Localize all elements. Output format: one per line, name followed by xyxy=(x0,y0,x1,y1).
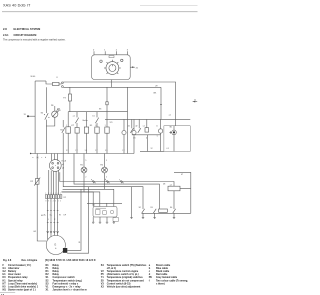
svg-text:121: 121 xyxy=(110,122,113,124)
contact S0 xyxy=(44,113,50,119)
wire bus D xyxy=(63,153,134,155)
wire fuse to terminals xyxy=(59,83,61,85)
wire lamp H2 tail xyxy=(63,173,105,189)
starter motor M1 xyxy=(63,248,67,253)
switch S1 aux contact left xyxy=(100,60,102,62)
wire bus E xyxy=(105,118,190,120)
wire diode down xyxy=(46,117,55,126)
wire left branch to G1 xyxy=(36,154,38,179)
terminal 30 xyxy=(62,82,64,84)
svg-text:41: 41 xyxy=(194,99,196,101)
wire X2 to G1 lead 1 xyxy=(47,198,49,239)
wire harness line 1b xyxy=(173,191,175,209)
resistor R3 xyxy=(34,178,40,186)
center cluster labels xyxy=(73,109,101,123)
svg-text:2 7: 2 7 xyxy=(122,150,124,152)
relay K0 coil xyxy=(66,127,71,133)
wire module stub d xyxy=(106,203,108,206)
fuel solenoid Y1 body xyxy=(169,119,176,134)
wire K3 to bus D xyxy=(106,133,108,153)
relay KT coil xyxy=(75,128,79,134)
module N1 ground stub 4 xyxy=(113,221,115,223)
wire bus A1 to right riser 2 xyxy=(63,82,175,119)
svg-text:G1: G1 xyxy=(33,231,37,233)
svg-text:Vehicle (use also) adjustment: Vehicle (use also) adjustment xyxy=(107,285,141,288)
module N1 ground stub 1 xyxy=(92,217,94,223)
wire X2 to G1 lead 2 xyxy=(50,198,52,236)
wire X1 to X2 pin4 xyxy=(55,171,57,194)
wire X1 to X2 pin1 xyxy=(48,170,50,195)
alternator lead labels xyxy=(44,214,67,221)
wire bus B xyxy=(68,111,127,113)
svg-text:m: m xyxy=(156,125,158,127)
svg-text:5: 5 xyxy=(106,160,107,162)
svg-text:XAS 40 DdG IT: XAS 40 DdG IT xyxy=(3,4,31,8)
svg-text:d2: d2 xyxy=(135,125,137,127)
wire ground return lower xyxy=(67,187,88,254)
svg-text:Junction level s + shunt the m: Junction level s + shunt the m xyxy=(53,288,87,291)
svg-text:X2: X2 xyxy=(63,197,66,199)
node bus H end xyxy=(30,153,31,154)
svg-text:S4: S4 xyxy=(101,264,105,267)
wire relay drop c xyxy=(86,112,88,127)
switch position ticks xyxy=(94,51,128,55)
lamp H2 xyxy=(102,154,108,173)
wire labels a b c d xyxy=(32,157,46,159)
svg-text:3: 3 xyxy=(127,49,129,51)
relay K3 coil xyxy=(105,127,109,133)
svg-text:V1: V1 xyxy=(58,110,60,112)
wire right rail top xyxy=(174,172,191,188)
ground stub right 3 xyxy=(173,213,175,218)
switch S4 contact xyxy=(173,209,176,214)
wire X2 to G1 lead 3 xyxy=(53,198,55,235)
wire B2 to right rail xyxy=(180,188,191,213)
svg-text:41: 41 xyxy=(136,67,139,69)
terminal 31 xyxy=(27,115,29,117)
svg-text:X1: X1 xyxy=(46,288,50,291)
svg-text:The compressor is executed wit: The compressor is executed with a negati… xyxy=(3,39,66,42)
svg-text:4: 4 xyxy=(146,138,147,140)
wire module bus xyxy=(87,202,122,204)
plug contact pair a xyxy=(92,180,95,183)
connector X2 strip xyxy=(45,195,61,199)
wire drop to bus G a xyxy=(147,135,149,152)
svg-text:c: c xyxy=(41,157,42,159)
svg-text:b: b xyxy=(105,179,106,181)
svg-text:2: 2 xyxy=(116,49,118,51)
wire H1 tail to module xyxy=(84,192,100,207)
svg-text:ELECTRICAL SYSTEM: ELECTRICAL SYSTEM xyxy=(14,28,41,31)
wire relay drop a xyxy=(67,112,69,127)
svg-text:1234567: 1234567 xyxy=(46,193,63,195)
svg-text:W: W xyxy=(59,214,61,216)
lead dashes xyxy=(47,210,59,212)
lead dashes row 2 xyxy=(47,222,59,224)
wire bus A2 xyxy=(63,86,161,88)
svg-text:S2: S2 xyxy=(139,207,141,209)
relay K2 coil xyxy=(95,127,99,133)
svg-text:M1: M1 xyxy=(170,126,173,128)
sensor box B2 xyxy=(168,186,180,191)
alternator G1 xyxy=(46,235,65,254)
lamp H1 xyxy=(81,154,87,173)
svg-text:2.8: 2.8 xyxy=(3,27,7,31)
resistor R1 xyxy=(159,209,168,212)
wire X1 to X2 pin3 xyxy=(53,171,55,194)
wire bus H xyxy=(31,153,64,155)
terminal 41 arrow right margin xyxy=(193,101,198,103)
svg-text:d: d xyxy=(45,157,46,159)
header top rule right xyxy=(140,4,198,6)
wire H2 tail to module xyxy=(105,189,114,206)
wire drop d2 + contact xyxy=(138,119,141,132)
wire harness line 1 xyxy=(60,172,174,186)
wire fuse F2 to bus B xyxy=(69,101,71,112)
svg-text:D+: D+ xyxy=(50,214,52,216)
svg-text:K1: K1 xyxy=(90,125,93,127)
wire switch terminal 41 xyxy=(130,66,135,68)
svg-text:Barlas: Barlas xyxy=(83,120,88,122)
wire KT to bus D xyxy=(76,133,78,153)
lead arrows xyxy=(47,231,59,233)
wire fuse F2 drop xyxy=(69,87,71,94)
switch S3 contact xyxy=(153,209,156,214)
svg-text:a1: a1 xyxy=(73,116,75,118)
svg-text:CIRCUIT DIAGRAM: CIRCUIT DIAGRAM xyxy=(14,34,37,37)
svg-text:3 5: 3 5 xyxy=(105,150,107,152)
ground stub right 1 xyxy=(142,213,144,218)
wire X2 to G1 lead 4 xyxy=(57,198,59,235)
svg-text:2 7: 2 7 xyxy=(75,150,77,152)
relay pin number labels xyxy=(66,125,125,152)
svg-text:H1: H1 xyxy=(80,165,83,167)
ground stub right 2 xyxy=(153,213,155,218)
svg-text:30 00: 30 00 xyxy=(30,76,35,78)
plug labels xyxy=(91,179,120,181)
diode V1 xyxy=(52,109,60,117)
fuse F2 xyxy=(68,94,71,101)
wire diode feed xyxy=(54,106,56,111)
svg-text:(b): (b) xyxy=(36,157,39,159)
header rule xyxy=(2,11,198,13)
svg-text:2 7: 2 7 xyxy=(95,150,97,152)
switch S2 contact xyxy=(142,209,145,214)
plug contact pair c xyxy=(120,180,123,183)
svg-text:5: 5 xyxy=(85,160,86,162)
right cluster labels xyxy=(110,122,173,150)
svg-text:K1 A: K1 A xyxy=(62,159,67,162)
svg-text:B+: B+ xyxy=(44,214,46,216)
switch position labels xyxy=(93,49,129,51)
svg-text:f: f xyxy=(149,279,150,282)
switch S1 keyway mark xyxy=(109,56,114,58)
svg-text:28: 28 xyxy=(163,184,166,186)
svg-text:1: 1 xyxy=(48,219,49,221)
wire drop to bus G b xyxy=(160,133,162,151)
svg-text:S3: S3 xyxy=(150,207,152,209)
plug contact pair b xyxy=(106,180,109,183)
svg-text:S4: S4 xyxy=(170,207,172,209)
wire harness line 2 xyxy=(74,154,159,210)
svg-text:F: F xyxy=(57,77,59,79)
svg-text:[N] 9846 5745 01 1/96 9846: [N] 9846 5745 01 1/96 9846 5843 18 E/3 D xyxy=(45,259,96,262)
svg-text:u1: u1 xyxy=(143,125,145,127)
wire harness line 3 xyxy=(63,154,143,210)
svg-text:3 5: 3 5 xyxy=(85,150,87,152)
svg-text:2: 2 xyxy=(85,176,86,178)
svg-text:1: 1 xyxy=(66,125,67,127)
wire left spine xyxy=(34,81,36,154)
wire contact down xyxy=(45,120,47,154)
sensor box S2 xyxy=(145,119,149,132)
wire drop d1 + contact xyxy=(130,119,133,132)
wire left feed elbow xyxy=(46,81,53,84)
svg-text:12: 12 xyxy=(151,148,153,150)
svg-text:2.8.1: 2.8.1 xyxy=(3,34,9,37)
svg-text:1 6: 1 6 xyxy=(133,138,136,140)
wire bus B tail xyxy=(127,87,129,153)
wire stub terminal 31 xyxy=(28,115,35,117)
fuse F xyxy=(53,82,60,85)
svg-text:KT: KT xyxy=(71,125,74,127)
wire bus I xyxy=(142,212,191,214)
svg-text:31: 31 xyxy=(24,114,26,116)
svg-text:S0: S0 xyxy=(41,113,43,115)
wire X1 to X2 pin2 xyxy=(50,171,52,195)
indicator P1 xyxy=(122,119,126,153)
wire harness line 5 xyxy=(62,192,94,207)
svg-text:Starter motor (part of 1 ): Starter motor (part of 1 ) xyxy=(8,288,36,291)
switch S1 body xyxy=(92,55,131,80)
svg-text:a: a xyxy=(91,179,93,181)
svg-text:F3: F3 xyxy=(63,98,66,100)
wire relay drop e + tap xyxy=(106,87,108,127)
svg-text:K8: K8 xyxy=(99,109,101,111)
wire ground return upper xyxy=(67,189,81,250)
svg-text:PE: PE xyxy=(51,105,54,107)
svg-text:1: 1 xyxy=(104,49,106,51)
svg-text:M1: M1 xyxy=(3,288,7,291)
svg-text:2: 2 xyxy=(54,219,55,221)
switch S1 aux contact right xyxy=(121,59,123,61)
svg-text:a: a xyxy=(32,157,34,159)
svg-text:31: 31 xyxy=(78,242,80,244)
indicator P2 xyxy=(132,119,136,153)
svg-text:H2: H2 xyxy=(100,165,103,167)
svg-text:Fig. 2.8: Fig. 2.8 xyxy=(3,259,12,262)
contact on left drop xyxy=(62,120,65,154)
svg-text:0: 0 xyxy=(93,49,95,51)
wire bus H into X1 pin1 xyxy=(51,154,53,161)
svg-text:0 1: 0 1 xyxy=(167,148,170,150)
wire X1 to X2 pin5 xyxy=(58,170,60,194)
wire relay drop d + contact xyxy=(95,112,98,127)
wire lamp H1 tail xyxy=(62,173,85,192)
module N1 ground stub 2 xyxy=(99,217,101,223)
svg-text:X3: X3 xyxy=(101,285,105,288)
sender R2 xyxy=(158,119,162,133)
engine enclosure box xyxy=(164,126,190,152)
svg-text:8: 8 xyxy=(95,125,96,127)
svg-text:R2: R2 xyxy=(30,181,33,183)
terminal 15 xyxy=(62,86,64,88)
ground stub mid xyxy=(130,187,132,219)
svg-text:Dev. A Engine: Dev. A Engine xyxy=(22,259,38,262)
svg-text:d1: d1 xyxy=(128,125,130,127)
wire bus G extension xyxy=(140,150,164,152)
wire bus H into X1 pin3 xyxy=(57,154,59,161)
wire K1 to bus D xyxy=(86,133,88,153)
module N1 box xyxy=(93,207,117,218)
svg-text:c: c xyxy=(119,179,120,181)
svg-text:s there): s there) xyxy=(156,282,165,285)
lamp pin labels xyxy=(85,160,107,179)
wire right riser xyxy=(160,87,162,119)
svg-text:DF: DF xyxy=(64,214,67,216)
wire drop to bus G c xyxy=(173,135,175,152)
wire switch to bus xyxy=(111,80,113,88)
wire K0 to bus D xyxy=(67,133,69,153)
wire K2 to bus D xyxy=(96,133,98,153)
svg-text:a1: a1 xyxy=(169,114,171,116)
wire bus H into X1 pin2 xyxy=(54,154,56,160)
wire bus F xyxy=(132,134,161,136)
bottom rule xyxy=(0,292,15,294)
svg-text:3 5: 3 5 xyxy=(66,150,68,152)
relay K1 coil xyxy=(84,127,88,133)
svg-text:47: 47 xyxy=(181,174,183,176)
wire relay drop b + contact xyxy=(75,112,78,128)
module N1 ground stub 3 xyxy=(106,217,108,223)
riser tick xyxy=(160,103,162,105)
wire second left drop xyxy=(45,87,47,113)
svg-text:1: 1 xyxy=(105,125,106,127)
wire R3 down to G1 xyxy=(37,184,46,241)
svg-text:G: G xyxy=(54,243,56,247)
aux box right of module xyxy=(113,218,119,222)
svg-text:5: 5 xyxy=(157,135,158,137)
module N1 innards xyxy=(96,208,114,214)
wire left feed top xyxy=(35,80,46,82)
connector X1 plug xyxy=(49,160,61,172)
svg-text:a2: a2 xyxy=(170,184,172,186)
connector X1 pin labels xyxy=(62,164,64,169)
svg-text:b1: b1 xyxy=(93,116,95,118)
svg-text:W1: W1 xyxy=(153,92,157,94)
